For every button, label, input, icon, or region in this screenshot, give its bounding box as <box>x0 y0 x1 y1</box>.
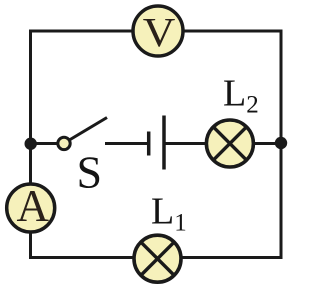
lamp L1: cross stroke 1 <box>141 242 174 275</box>
lamp L2: body <box>206 120 253 167</box>
wire: node A to switch pivot <box>31 142 65 145</box>
lamp L1: cross stroke 2 <box>141 242 174 275</box>
svg-text:S: S <box>77 147 103 198</box>
lamp L2: cross stroke 2 <box>214 127 247 160</box>
wire: right side of outer loop <box>280 30 283 260</box>
wire: lamp L2 to node B <box>252 142 281 145</box>
svg-text:V: V <box>143 11 176 56</box>
wire: bottom side of outer loop <box>31 256 283 259</box>
svg-text:L1: L1 <box>151 191 187 237</box>
lamp L2: cross stroke 1 <box>214 127 247 160</box>
wire: battery to lamp L2 <box>164 142 208 145</box>
node A: left junction dot <box>25 138 37 150</box>
switch S: pivot contact <box>58 137 70 149</box>
lamp L1: body <box>134 235 181 282</box>
wire: left side of outer loop <box>29 30 32 260</box>
battery: long plate (positive) <box>162 116 166 170</box>
svg-text:A: A <box>17 181 50 231</box>
svg-text:L2: L2 <box>223 73 259 119</box>
wire: switch fixed contact to battery <box>105 142 148 145</box>
ammeter A: body <box>7 184 55 232</box>
node B: right junction dot <box>275 137 287 149</box>
wire: top side of outer loop <box>31 30 282 33</box>
battery: short plate (negative) <box>147 132 151 156</box>
voltmeter V: body <box>133 6 183 56</box>
switch S: lever arm <box>66 118 107 143</box>
